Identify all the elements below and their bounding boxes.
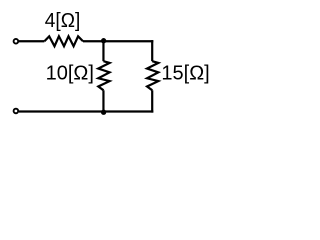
node A (top junction dot) [101,38,106,43]
svg-text:10[Ω]: 10[Ω] [46,62,94,84]
wire (right branch: top corner down to resistor R3) [151,40,153,61]
terminal (bottom-left input) [14,109,19,114]
resistor R2 10Ω (vertical zigzag) [98,61,109,90]
wire (resistor R2 down to node B) [102,90,104,111]
wire (right branch: resistor R3 down to bottom corner) [151,90,153,112]
wire (node A down to resistor R2) [102,41,104,61]
wire (top: terminal to resistor R1) [19,40,45,42]
terminal (top-left input) [14,39,19,44]
wire (bottom: right corner to bottom-left terminal) [19,110,154,112]
node B (bottom junction dot) [101,110,106,115]
resistor R3 15Ω (vertical zigzag) [147,61,158,90]
svg-text:4[Ω]: 4[Ω] [45,10,81,32]
wire (top: resistor R1 to node A and right corner) [83,40,153,42]
svg-text:15[Ω]: 15[Ω] [161,62,209,84]
resistor R1 4Ω (horizontal zigzag) [44,36,83,46]
